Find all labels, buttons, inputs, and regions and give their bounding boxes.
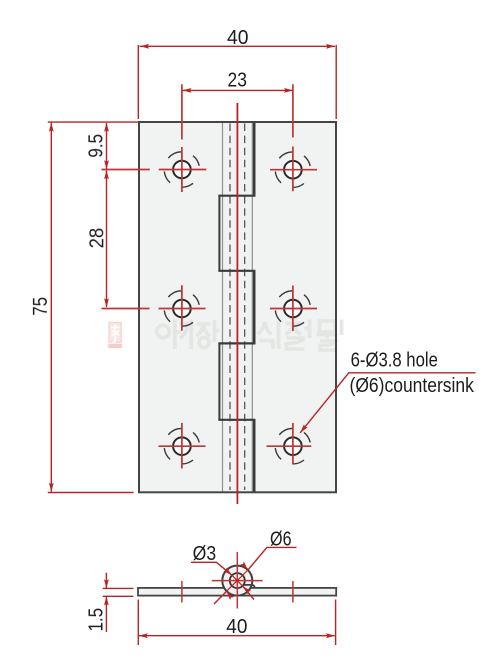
hole crosshairs (102, 84, 318, 468)
knuckle seg3 right edge (253, 270, 256, 344)
leader D6 (214, 547, 297, 604)
barrel tangent left (222, 122, 224, 492)
dimension 28 (106, 170, 108, 307)
watermark logo icon (108, 322, 123, 348)
crosshair hole mid-left (102, 285, 206, 331)
bottom view centerlines (182, 552, 293, 609)
countersink mid-right (275, 291, 310, 326)
knuckle seg1 right edge (253, 122, 256, 197)
crosshair hole top-right (270, 84, 317, 191)
glyph CHEOL (철) (286, 319, 310, 339)
holes with countersink arcs (164, 152, 310, 464)
pin hidden line left (229, 124, 231, 491)
dimension 75 (48, 122, 138, 492)
hole bottom-left (173, 437, 191, 455)
dimension 23 (183, 89, 293, 91)
crosshair hole top-left (102, 84, 207, 192)
knuckle segment outlines (218, 122, 255, 492)
barrel wrap connector (244, 585, 255, 588)
hole mid-left (173, 300, 191, 318)
countersink mid-left (164, 291, 199, 326)
countersink bottom-right (275, 428, 310, 463)
hole top-right (284, 161, 302, 179)
leader D3 (191, 562, 254, 599)
svg-text:6-Ø3.8 hole: 6-Ø3.8 hole (351, 348, 438, 371)
svg-text:(Ø6)countersink: (Ø6)countersink (350, 374, 475, 397)
svg-text:75: 75 (29, 297, 52, 316)
plate (138, 588, 336, 596)
leader 6-D3.8 hole (300, 373, 476, 433)
knuckle cut 3 (218, 342, 255, 344)
countersink top-right (275, 152, 310, 187)
glyph MUL (물) (317, 320, 342, 339)
knuckle cut 4 (218, 419, 255, 421)
barrel knuckle column (223, 122, 253, 492)
svg-text:Ø6: Ø6 (270, 528, 292, 551)
glyph SIK (식) (258, 321, 279, 350)
watermark korean text (drawn as light glyph shapes) (157, 319, 342, 351)
pin hidden line right (244, 124, 246, 491)
red centerline of barrel (236, 103, 238, 504)
knuckle cut 1 (218, 195, 255, 197)
glyph A (아) (157, 325, 170, 338)
svg-text:Ø3: Ø3 (193, 542, 217, 565)
svg-text:9.5: 9.5 (84, 134, 107, 158)
part outline (139, 122, 336, 492)
svg-text:1.5: 1.5 (85, 608, 108, 632)
knuckle seg2 left edge (218, 195, 220, 272)
dimension 40 top (138, 45, 336, 119)
dimension 1.5 (103, 573, 134, 632)
hole mid-right (284, 300, 302, 318)
svg-text:40: 40 (227, 26, 249, 49)
knuckle seg4 left edge (218, 343, 220, 421)
crosshair hole mid-right (270, 286, 317, 332)
dimension 9.5 (106, 123, 108, 169)
countersink top-left (164, 152, 199, 187)
hinge leaf plate body (139, 122, 336, 492)
glyph JEONG (정) (197, 320, 220, 342)
dimension 40 bottom (138, 600, 335, 646)
svg-text:23: 23 (228, 68, 247, 91)
knuckle seg5 right edge (253, 419, 256, 492)
knuckle cut 2 (218, 270, 255, 272)
countersink bottom-left (164, 428, 199, 463)
glyph GI (기) (179, 320, 191, 350)
svg-text:40: 40 (226, 615, 247, 638)
knuckle barrel circle outer (222, 566, 252, 596)
barrel tangent right (251, 122, 253, 492)
crosshair hole bottom-right (267, 423, 312, 465)
svg-text:28: 28 (85, 228, 108, 249)
crosshair hole bottom-left (159, 423, 206, 469)
knuckle pin circle inner (230, 573, 245, 588)
hole bottom-right (284, 437, 302, 455)
hole top-left (173, 161, 191, 179)
